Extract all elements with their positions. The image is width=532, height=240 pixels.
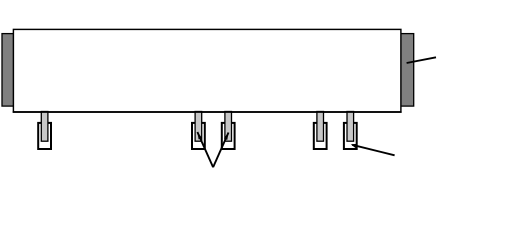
clip stem 4	[317, 112, 324, 142]
leader line to clip 5	[352, 145, 394, 156]
arrowhead at clip 5	[351, 144, 358, 149]
leader V left arm to clip 2	[197, 132, 213, 167]
clip stem 5	[347, 112, 354, 142]
clip holder cup 4	[314, 123, 327, 149]
leader line to right end cap	[407, 57, 436, 63]
clip stem 1	[41, 112, 48, 142]
left end cap	[2, 34, 15, 107]
clip holder cup 1	[38, 123, 51, 149]
clip stem 2	[195, 112, 202, 142]
rail body	[13, 29, 401, 112]
clip holder cup 5	[344, 123, 357, 149]
clip holder cup 2	[192, 123, 205, 149]
rail bottom edge	[13, 111, 402, 113]
arrowhead at clip 3	[224, 133, 229, 140]
leader V right arm to clip 3	[213, 133, 228, 168]
clip stem 3	[225, 112, 232, 142]
clip holder cup 3	[222, 123, 235, 149]
right end cap	[399, 34, 414, 107]
arrowhead at clip 2	[197, 132, 202, 139]
